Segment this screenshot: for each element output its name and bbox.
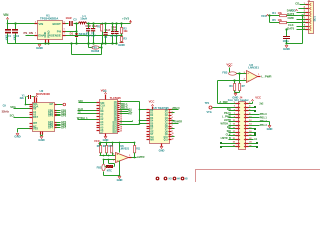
svg-text:WTDH_1: WTDH_1 <box>221 123 232 126</box>
svg-text:FB2: FB2 <box>97 167 102 170</box>
svg-text:VCC: VCC <box>261 14 268 18</box>
svg-text:12: 12 <box>172 138 174 140</box>
svg-text:PS2.5: PS2.5 <box>224 112 231 115</box>
svg-text:TP1: TP1 <box>205 102 210 105</box>
svg-text:20: 20 <box>120 131 122 133</box>
svg-text:O13: O13 <box>112 128 117 130</box>
svg-text:VIN: VIN <box>38 22 43 26</box>
svg-text:CLK: CLK <box>226 133 231 136</box>
svg-text:Q10: Q10 <box>163 137 168 139</box>
svg-text:10uF: 10uF <box>5 35 8 41</box>
svg-text:10k: 10k <box>123 30 128 33</box>
svg-text:INT: INT <box>129 113 133 116</box>
svg-text:10uF 10uF: 10uF 10uF <box>85 25 98 28</box>
svg-text:INT: INT <box>33 122 38 125</box>
svg-text:13: 13 <box>120 117 122 119</box>
svg-text:32k: 32k <box>20 97 25 100</box>
svg-text:+3V3: +3V3 <box>122 16 129 20</box>
svg-text:−: − <box>247 78 249 82</box>
svg-text:O12: O12 <box>112 126 117 128</box>
svg-text:CD: CD <box>295 1 299 5</box>
svg-text:O15: O15 <box>112 132 117 134</box>
svg-text:3: 3 <box>172 114 173 116</box>
svg-text:J1: J1 <box>307 0 311 3</box>
svg-text:BOOT: BOOT <box>52 22 61 26</box>
svg-text:10nF: 10nF <box>66 16 73 20</box>
svg-text:CMD: CMD <box>288 16 294 20</box>
svg-text:PB2.0: PB2.0 <box>173 107 181 110</box>
svg-text:VSS: VSS <box>33 128 38 131</box>
svg-text:9: 9 <box>172 130 173 132</box>
svg-text:SDI: SDI <box>227 130 231 133</box>
svg-text:LMTR: LMTR <box>137 155 145 159</box>
svg-text:L_PWR: L_PWR <box>261 74 272 78</box>
svg-text:10uF: 10uF <box>13 35 16 41</box>
svg-text:18: 18 <box>120 127 122 129</box>
svg-text:IN2: IN2 <box>227 126 232 129</box>
svg-text:PH: PH <box>57 29 61 33</box>
svg-text:16V: 16V <box>91 35 96 38</box>
svg-text:LMV321: LMV321 <box>248 66 259 70</box>
svg-text:MCP23008: MCP23008 <box>36 92 50 96</box>
svg-text:+: + <box>117 152 119 156</box>
svg-text:GND: GND <box>36 46 44 50</box>
svg-text:RST: RST <box>33 116 38 119</box>
svg-text:LMTR_B: LMTR_B <box>221 137 231 140</box>
svg-text:+: + <box>247 71 249 75</box>
svg-text:TPS5430DDA: TPS5430DDA <box>40 16 59 20</box>
svg-text:7: 7 <box>172 125 173 127</box>
svg-text:PB1.3: PB1.3 <box>260 124 268 127</box>
svg-text:GP3: GP3 <box>61 115 67 118</box>
svg-text:IN1: IN1 <box>227 108 232 111</box>
svg-text:VCC: VCC <box>94 139 100 143</box>
svg-text:VCC: VCC <box>255 95 261 99</box>
svg-text:VCC: VCC <box>149 100 155 104</box>
svg-text:PB1.0: PB1.0 <box>260 113 268 116</box>
svg-text:NTC: NTC <box>107 170 112 173</box>
svg-text:−: − <box>117 158 119 162</box>
svg-text:FB1: FB1 <box>92 47 97 50</box>
svg-text:PB1.1: PB1.1 <box>260 117 268 120</box>
svg-text:19: 19 <box>120 129 122 131</box>
svg-text:GP: GP <box>49 103 53 106</box>
svg-text:LMTR: LMTR <box>224 119 231 122</box>
svg-text:BLM18: BLM18 <box>91 50 99 53</box>
svg-text:GP7: GP7 <box>61 127 67 130</box>
svg-text:O10: O10 <box>112 122 117 124</box>
svg-text:15uH: 15uH <box>80 17 87 21</box>
svg-text:GND: GND <box>38 138 44 142</box>
svg-text:POWER: POWER <box>173 121 183 124</box>
svg-text:GP7: GP7 <box>48 127 54 130</box>
svg-text:DAT0: DAT0 <box>287 26 294 30</box>
svg-text:10: 10 <box>172 133 174 135</box>
svg-text:PS_ON: PS_ON <box>24 31 33 35</box>
svg-text:12: 12 <box>120 115 122 117</box>
svg-text:32kHz: 32kHz <box>2 111 10 114</box>
svg-text:16V: 16V <box>86 35 91 38</box>
svg-text:GND: GND <box>283 47 291 51</box>
svg-text:MR: MR <box>150 139 154 142</box>
svg-text:GP3: GP3 <box>48 115 54 118</box>
svg-text:SD1: SD1 <box>312 16 316 22</box>
svg-text:GND: GND <box>118 43 124 47</box>
svg-text:VSENSE: VSENSE <box>49 33 61 37</box>
svg-text:VTG: VTG <box>207 111 212 114</box>
svg-text:2k2: 2k2 <box>259 103 264 106</box>
svg-text:L_PWR: L_PWR <box>222 115 231 118</box>
svg-text:GND: GND <box>14 135 20 139</box>
svg-text:VIN: VIN <box>3 13 9 17</box>
